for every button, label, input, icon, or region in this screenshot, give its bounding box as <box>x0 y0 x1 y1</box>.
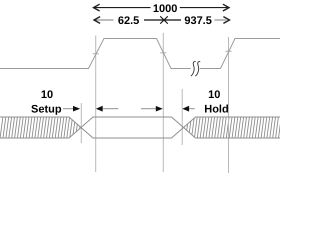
data bus hatched regions (invalid data) <box>0 116 290 138</box>
clock waveform <box>0 39 280 69</box>
tick mark on falling edge <box>160 52 166 54</box>
setup dimension left arrow shaft <box>63 108 74 110</box>
data transition line (hold side) <box>181 89 183 145</box>
break symbol (discontinuity squiggles) <box>191 62 196 76</box>
tick mark on second rising edge <box>226 50 232 52</box>
setup dimension left-pointing arrowhead <box>96 106 103 112</box>
extension line at clock rising edge <box>95 36 97 173</box>
svg-text:937.5: 937.5 <box>184 15 212 27</box>
setup dimension right shaft <box>103 108 119 110</box>
extension line at clock falling edge <box>162 33 164 172</box>
svg-text:10: 10 <box>208 89 220 101</box>
hold dimension left-pointing arrowhead <box>182 106 189 112</box>
svg-text:10: 10 <box>41 89 53 101</box>
tick mark on rising edge <box>93 53 99 55</box>
hold dimension right shaft <box>189 108 195 110</box>
svg-text:62.5: 62.5 <box>118 15 139 27</box>
hold dimension right-pointing arrowhead <box>156 106 163 112</box>
X junction mark between 62.5 and 937.5 <box>160 16 168 23</box>
dimension row 2 segments adjoining the X mark <box>144 19 181 21</box>
data transition line (setup side) <box>80 103 82 143</box>
dimension line 1000 right arrowhead <box>223 4 229 11</box>
dimension 937.5 right arrowhead <box>223 17 229 24</box>
extension line at second clock rising edge <box>228 37 230 173</box>
setup dimension right-pointing arrowhead <box>73 106 80 112</box>
svg-text:1000: 1000 <box>153 3 177 15</box>
data bus outline upper/lower crossing paths <box>0 117 280 138</box>
svg-text:Hold: Hold <box>204 104 228 116</box>
svg-text:Setup: Setup <box>31 104 62 116</box>
dimension line 1000 shafts <box>94 7 230 9</box>
hold dimension left shaft <box>141 108 156 110</box>
dimension line 62.5 / 937.5 shafts <box>94 19 227 21</box>
dimension line 1000 left arrowhead <box>94 4 100 11</box>
dimension 62.5 left arrowhead <box>94 17 100 24</box>
